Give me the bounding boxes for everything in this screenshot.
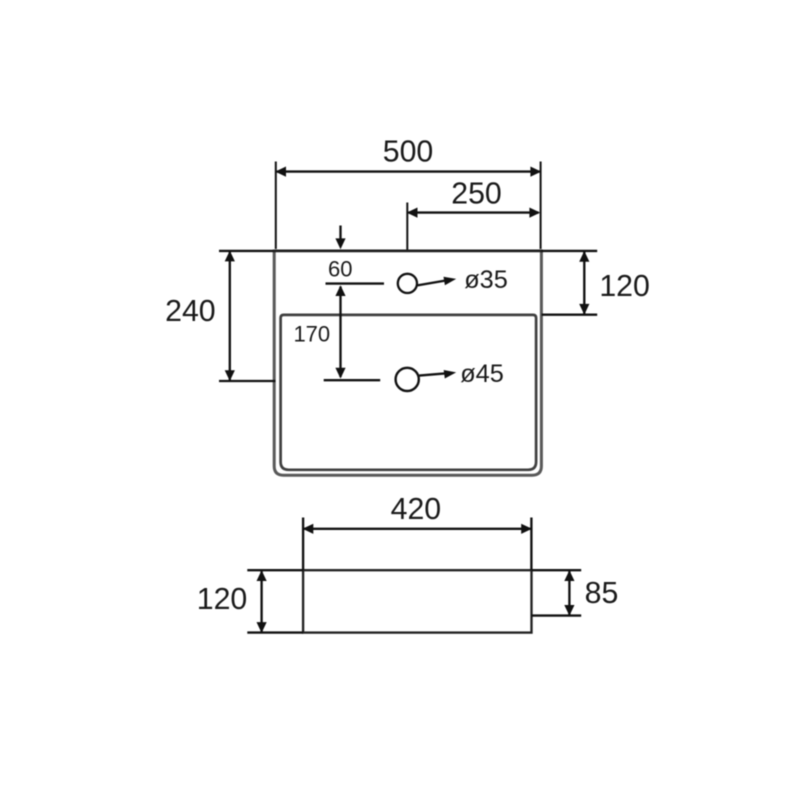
dim 250 right arrowhead — [529, 208, 540, 218]
leader arrow for d35 — [417, 281, 445, 286]
dim 240 top arrowhead — [225, 251, 235, 262]
dim 120 bottom bottom arrowhead — [257, 622, 267, 633]
dim 500 left arrowhead — [275, 167, 286, 177]
dim 420 left arrowhead — [303, 524, 314, 534]
dim 85 top arrowhead — [564, 570, 574, 581]
dim 85 line — [568, 571, 570, 614]
dim 170 line — [339, 287, 341, 378]
basin inner bowl outline (top view) — [281, 315, 536, 470]
dim 420 right arrowhead — [521, 524, 532, 534]
svg-text:120: 120 — [599, 270, 650, 303]
dim 420 extension line left — [302, 518, 304, 571]
dim 500 extension line right — [540, 162, 542, 250]
side view top edge right extension — [532, 569, 582, 571]
svg-text:120: 120 — [197, 583, 248, 616]
svg-text:85: 85 — [585, 577, 619, 610]
dim 120 bottom line — [260, 571, 262, 631]
dim 170 bottom arrowhead — [335, 368, 345, 379]
dim 120 right top arrowhead — [579, 251, 589, 262]
dim 420 line — [304, 528, 530, 530]
svg-text:420: 420 — [391, 493, 442, 526]
dim 250 left arrowhead — [407, 208, 418, 218]
svg-text:ø45: ø45 — [460, 360, 504, 388]
dim 60 top reference arrow (down onto top edge) — [339, 226, 341, 241]
dim 120 right line — [583, 252, 585, 314]
dim 250 line — [408, 211, 538, 213]
dim 240 extension line bottom — [219, 380, 276, 382]
side view top edge left extension — [247, 569, 303, 571]
side view bottom edge left extension — [247, 631, 303, 633]
dim 420 extension line right — [530, 518, 532, 571]
dim 120 bottom top arrowhead — [257, 570, 267, 581]
leader arrow for d45 — [419, 373, 445, 375]
drain hole circle (d45) — [396, 368, 419, 391]
side view body rectangle — [303, 570, 531, 632]
dim 500 right arrowhead — [530, 167, 541, 177]
basin top edge (top view) — [273, 249, 543, 252]
dim 500 line — [277, 170, 540, 172]
dim 85 bottom arrowhead — [564, 605, 574, 616]
svg-text:240: 240 — [165, 295, 216, 328]
dim 240 extension line top — [219, 250, 273, 252]
dim 240 bottom arrowhead — [225, 370, 235, 381]
svg-text:500: 500 — [383, 135, 434, 168]
dim 250 extension line left (hole axis) — [406, 203, 408, 250]
dim 170 bottom reference line (drain level) — [324, 379, 381, 381]
dim 500 extension line left — [275, 162, 277, 250]
svg-text:250: 250 — [451, 178, 502, 211]
dim 120 right bottom arrowhead — [579, 304, 589, 315]
dim 120 right extension line bottom — [542, 314, 598, 316]
basin outer outline (top view) — [274, 251, 541, 475]
svg-text:60: 60 — [328, 256, 352, 281]
dim 85 bottom reference line — [532, 614, 582, 616]
dim 240 line — [229, 252, 231, 380]
dim 120 right extension line top — [541, 250, 597, 252]
dim 170 top arrowhead — [335, 285, 345, 296]
faucet hole circle (d35) — [398, 274, 417, 293]
svg-text:ø35: ø35 — [464, 266, 508, 294]
dim 60 hole-level line — [326, 282, 385, 284]
svg-text:170: 170 — [293, 321, 330, 346]
